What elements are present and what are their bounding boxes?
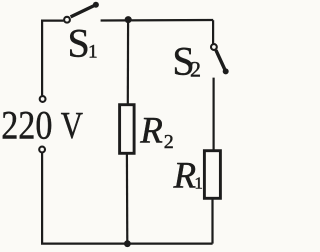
svg-text:2: 2 [190,57,201,82]
junction node: top of middle branch [125,16,132,23]
voltage source top terminal (open circle) [40,96,46,102]
resistor R2 (rectangle) [120,105,135,154]
resistor R1 (rectangle) [204,151,220,199]
label S1 [68,20,98,65]
switch S2 lever (open blade) [216,50,226,71]
wire: R2 down to bottom junction [126,153,129,243]
wire: source bottom terminal down and along bottom to bottom-right corner [42,153,213,244]
switch S1 pivot terminal (open circle) [64,17,70,23]
wire: top-right corner down to S2 [212,20,214,43]
switch S2 lever tip contact dot [223,68,229,74]
svg-text:V: V [61,104,83,147]
label 220 V [1,104,83,149]
svg-text:2: 2 [164,131,174,153]
switch S1 lever tip contact dot [93,2,99,8]
label S2 [172,39,201,84]
wire: S1 right lead across top to top-right corner [101,19,214,22]
wire: top junction down to R2 [127,20,130,105]
wire: R1 down to bottom-right corner [211,198,213,243]
svg-text:R: R [173,156,197,197]
svg-text:R: R [139,111,163,152]
wire: top-left corner, from S1 left lead down to source top terminal [42,21,63,96]
label R2 [139,111,174,154]
voltage source bottom terminal (open circle) [39,147,45,153]
svg-text:1: 1 [88,41,98,62]
svg-text:S: S [68,20,90,65]
svg-text:220: 220 [1,104,52,148]
wire: S2 down to R1 [213,78,215,151]
junction node: bottom of middle branch [124,240,131,247]
label R1 [173,156,203,197]
switch S1 lever (open blade) [71,5,96,17]
switch S2 pivot terminal (open circle) [211,44,217,50]
svg-text:1: 1 [194,174,203,193]
